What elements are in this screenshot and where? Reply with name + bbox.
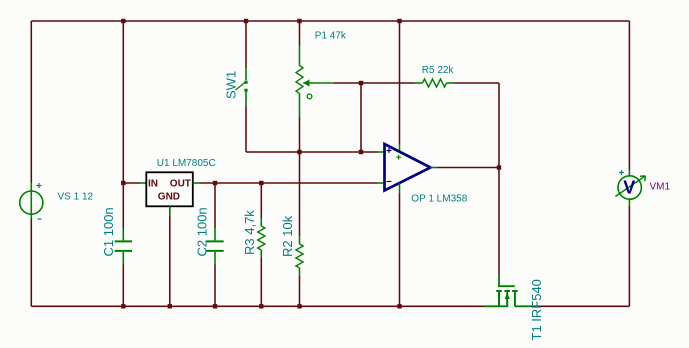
svg-text:VS 1 12: VS 1 12	[58, 192, 94, 203]
junction 5V rail / R3	[259, 181, 263, 185]
wire SW1 branch upper	[245, 21, 247, 68]
svg-text:C1 100n: C1 100n	[101, 207, 116, 256]
pin op-amp output stub	[431, 167, 438, 169]
transistor T1 bulk arrow	[505, 293, 510, 299]
wire bottom right (drain to VM1 loop)	[531, 305, 629, 307]
svg-text:C2 100n: C2 100n	[195, 207, 210, 256]
wire bottom ground bus	[31, 305, 484, 307]
op-amp OP1 triangle	[385, 144, 431, 191]
wire R3 branch upper	[260, 183, 262, 218]
voltage source VS1	[20, 183, 43, 220]
transistor T1 channel bars	[496, 291, 518, 306]
svg-text:R3 4,7k: R3 4,7k	[242, 210, 257, 255]
pin U1 OUT stub	[193, 182, 201, 184]
wire P1 branch upper	[299, 21, 301, 45]
transistor T1 gate lead	[499, 276, 515, 286]
op-amp plus input mark	[387, 148, 392, 153]
P1 wiper arrow	[303, 79, 334, 98]
wire P1 bottom lead	[299, 117, 301, 152]
regulator U1 body	[146, 172, 193, 206]
wire SW1 lower to plus-input rail	[245, 106, 247, 152]
junction plus rail / wiper net	[359, 150, 363, 154]
wire right vertical upper (to VM1)	[628, 21, 630, 170]
svg-text:VM1: VM1	[650, 182, 671, 193]
junction top bus / P1 branch	[297, 19, 301, 23]
svg-text:R2 10k: R2 10k	[280, 215, 295, 257]
wire feedback vertical	[498, 83, 500, 168]
svg-text:SW1: SW1	[223, 71, 238, 99]
wire gate from output node	[498, 168, 500, 277]
junction ground bus / R2	[297, 304, 301, 308]
wire 5V output rail	[201, 182, 378, 184]
transistor T1 source rail	[484, 305, 508, 307]
junction ground bus / R3	[259, 304, 263, 308]
svg-text:P1 47k: P1 47k	[315, 31, 347, 42]
pin op-amp non-inverting stub	[378, 151, 385, 153]
junction ground bus / C2	[213, 304, 217, 308]
junction top bus / C1 branch	[121, 19, 125, 23]
junction ground bus / op-amp V-	[397, 304, 401, 308]
wire left vertical lower (VS1 negative lead)	[30, 219, 32, 306]
wire top supply bus	[31, 20, 629, 22]
wire P1 node down to R2	[299, 152, 301, 236]
resistor R3	[258, 218, 265, 258]
VM1 plus mark	[619, 170, 624, 175]
capacitor C2	[206, 228, 223, 265]
wire C2 branch lower	[214, 265, 216, 307]
svg-text:T1 IRF540: T1 IRF540	[529, 279, 544, 340]
wire op-amp V+ from top bus	[399, 21, 401, 145]
resistor R5	[415, 79, 455, 87]
voltmeter VM1	[615, 170, 645, 205]
wire C2 branch upper	[214, 183, 216, 228]
junction ground bus / U1 GND	[168, 304, 172, 308]
pin op-amp V- stub	[399, 184, 401, 194]
junction top bus / op-amp V+	[397, 19, 401, 23]
wire wiper node down	[360, 83, 362, 152]
switch SW1	[236, 68, 248, 106]
wire wiper node to R5	[361, 82, 415, 84]
junction plus rail / P1 bottom	[297, 150, 301, 154]
potentiometer P1	[296, 45, 303, 117]
wire C1 branch lower	[122, 265, 124, 307]
wire R3 branch lower	[260, 258, 262, 306]
svg-text:OP 1 LM358: OP 1 LM358	[411, 194, 467, 205]
wire R2 lower	[299, 276, 301, 306]
wire C1 branch upper	[122, 21, 124, 228]
junction ground bus / C1	[121, 304, 125, 308]
pin U1 GND stub	[169, 206, 171, 215]
wire wiper to R5 node	[334, 82, 361, 84]
svg-text:IN: IN	[148, 179, 158, 190]
VS1 minus mark	[38, 218, 42, 220]
transistor T1 drain lead	[515, 305, 531, 307]
junction 5V rail / C2	[213, 181, 217, 185]
svg-text:OUT: OUT	[170, 179, 191, 190]
wire U1 IN from C1 node	[123, 182, 140, 184]
resistor R2	[296, 236, 303, 276]
wire R5 right to feedback corner	[455, 82, 500, 84]
svg-text:U1 LM7805C: U1 LM7805C	[157, 158, 216, 169]
svg-text:R5 22k: R5 22k	[422, 65, 455, 76]
VS1 plus mark	[37, 183, 42, 188]
wire left vertical upper (VS1 positive lead)	[30, 21, 32, 183]
junction output / feedback / gate	[497, 165, 501, 169]
pin op-amp inverting stub	[378, 182, 385, 184]
junction top bus / SW1 branch	[244, 19, 248, 23]
capacitor C1	[115, 228, 132, 265]
pin U1 IN stub	[140, 182, 146, 184]
op-amp minus input mark	[387, 181, 392, 183]
pin op-amp V+ stub	[399, 145, 401, 153]
wire right vertical lower (from VM1)	[628, 206, 630, 307]
wire op-amp output	[438, 167, 500, 169]
op-amp V+ plus mark	[396, 155, 401, 160]
wire op-amp V- to ground bus	[399, 194, 401, 307]
wire plus-input rail	[246, 151, 378, 153]
svg-text:V: V	[623, 178, 635, 198]
junction wiper net	[359, 81, 363, 85]
svg-text:GND: GND	[158, 192, 180, 203]
junction C1 branch / U1 IN	[121, 181, 125, 185]
wire U1 GND to ground bus	[169, 216, 171, 307]
